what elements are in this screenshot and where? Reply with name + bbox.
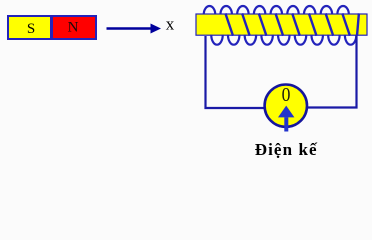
galvanometer body [265,85,307,127]
coil winding diagonals [225,13,359,35]
svg-text:x: x [166,15,175,34]
coil top loops [204,6,349,15]
right lead wire [308,36,357,108]
magnet body (blue frame + divider) [7,15,97,40]
svg-text:S: S [27,21,35,37]
svg-text:Điện kế: Điện kế [255,140,318,159]
galvanometer needle [278,106,294,118]
magnet S pole (yellow) [9,17,50,38]
magnet N pole (red) [53,17,95,38]
coil core (yellow bar) [196,14,367,35]
coil bottom loops [211,35,356,45]
left lead wire [206,36,265,108]
motion arrow [107,27,153,29]
svg-text:0: 0 [282,85,291,106]
svg-text:N: N [68,20,79,36]
